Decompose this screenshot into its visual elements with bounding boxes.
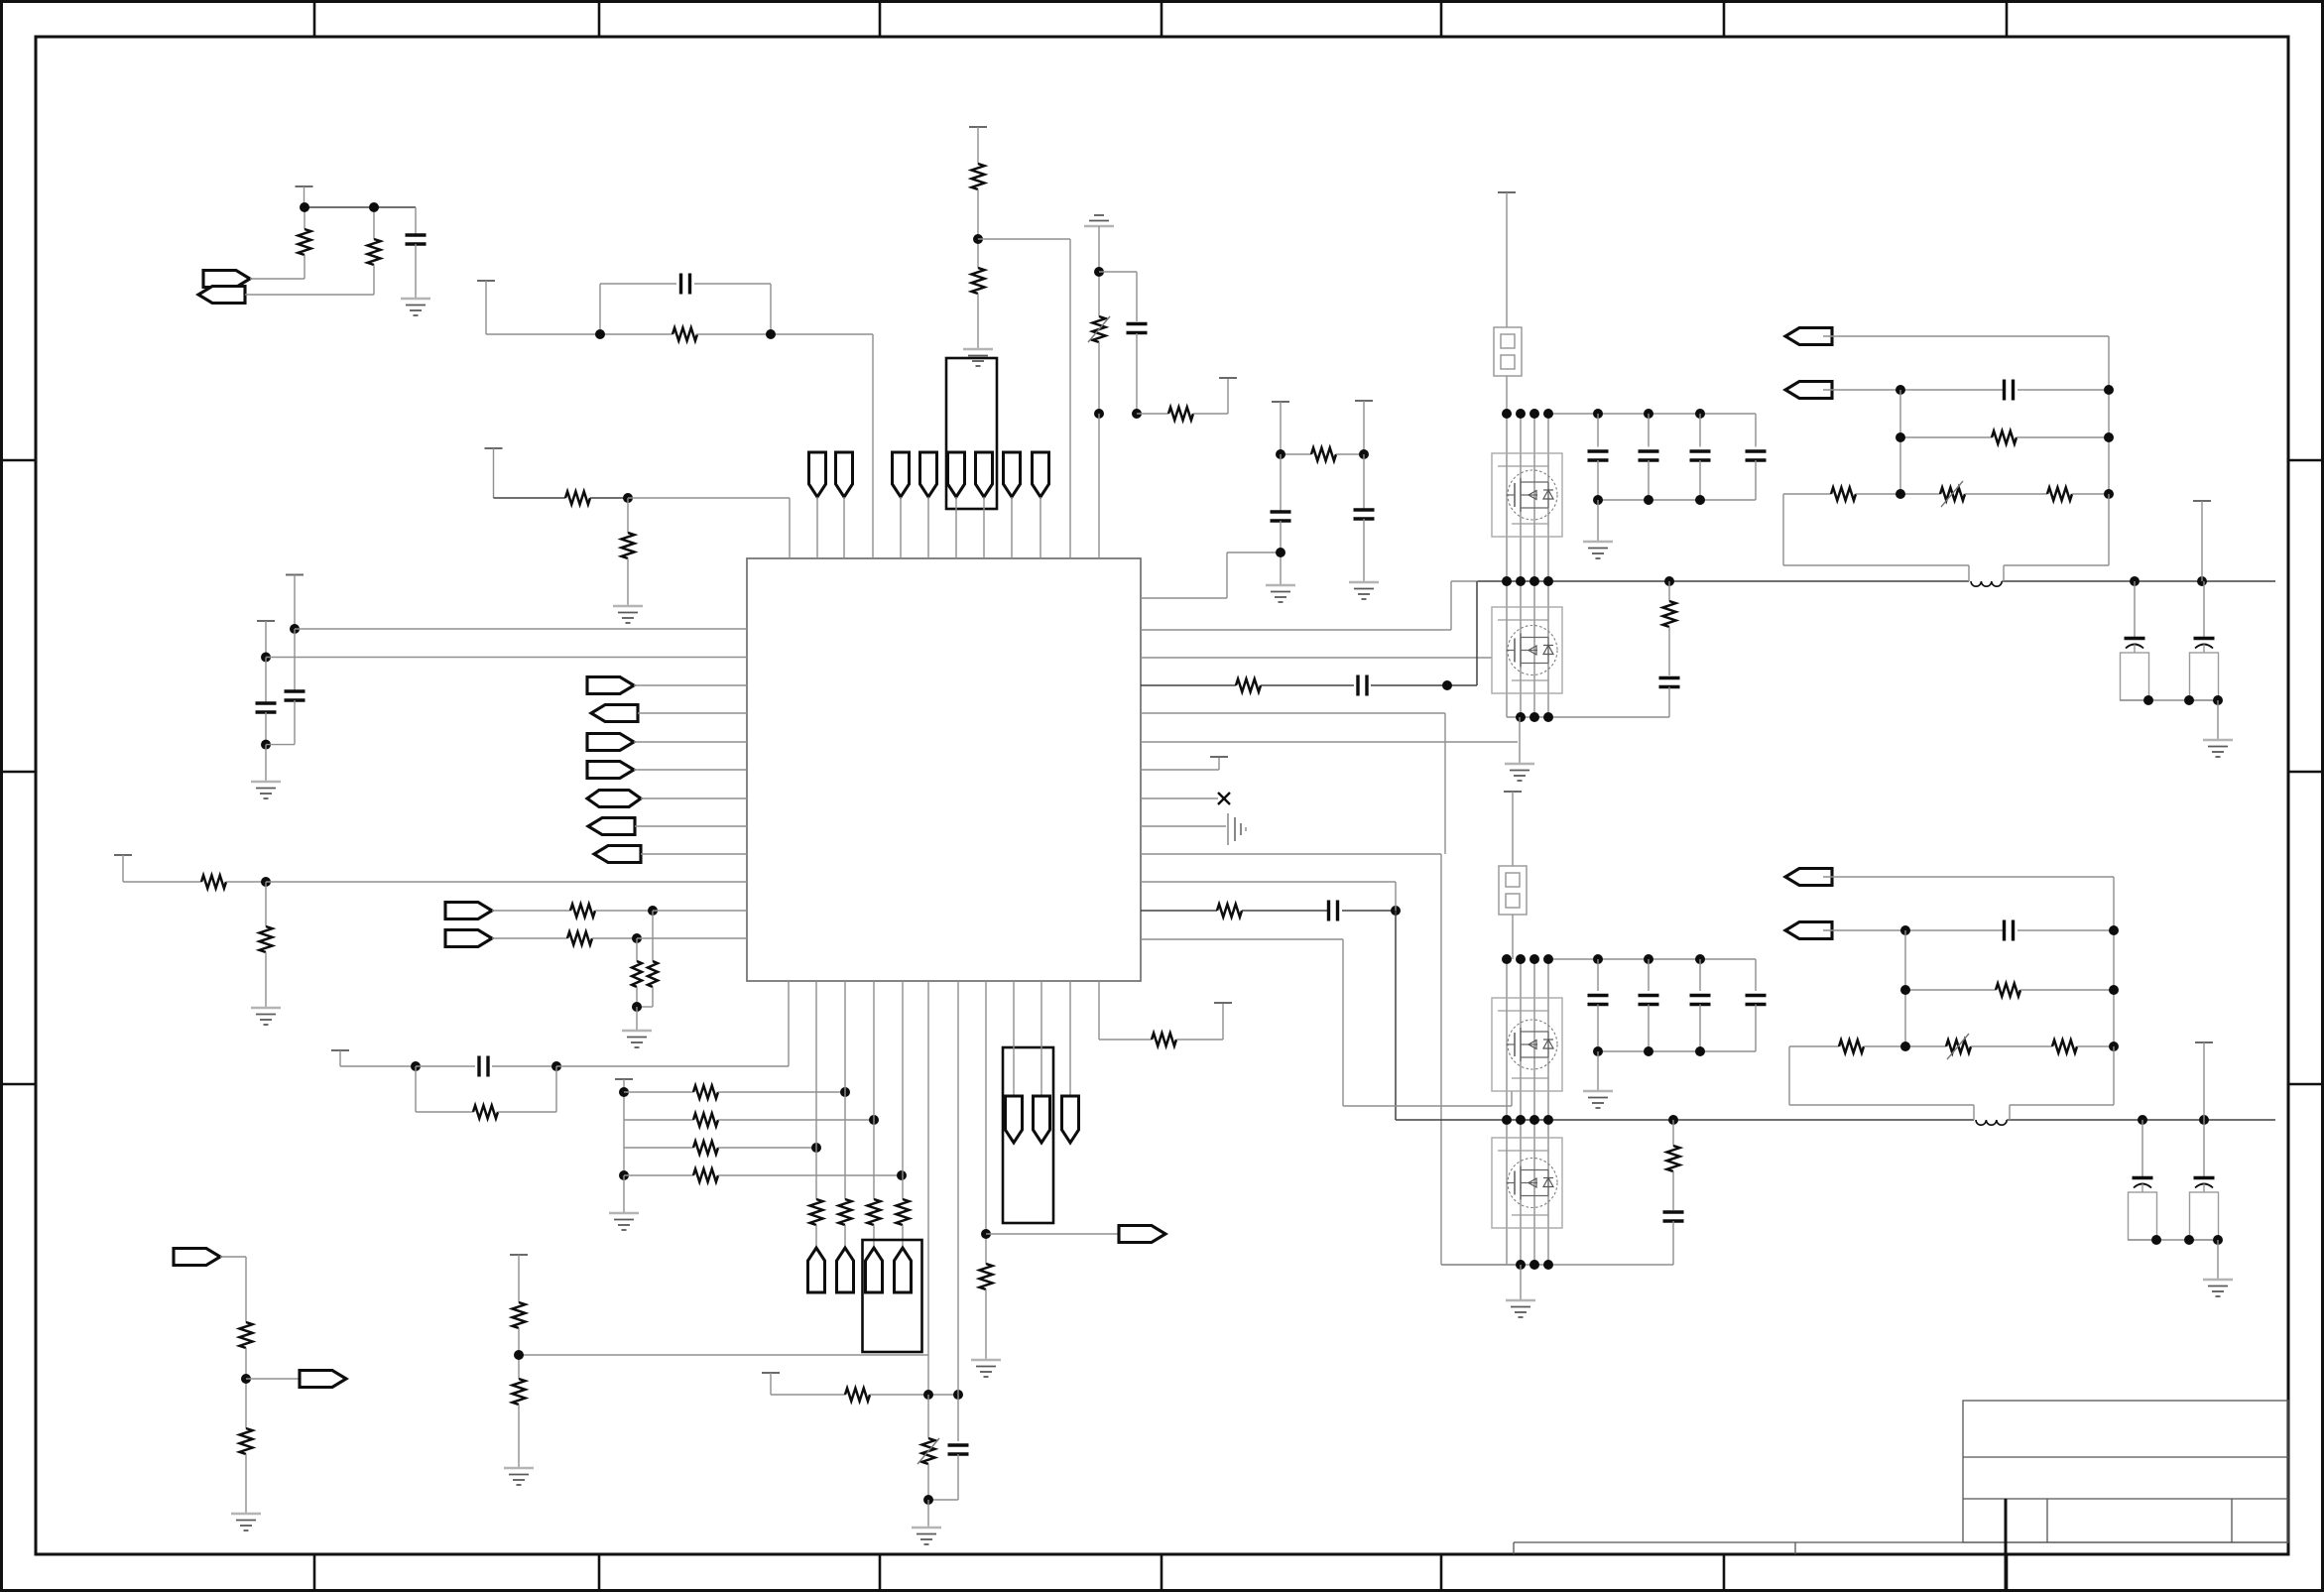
junction bbox=[1529, 1260, 1539, 1270]
wire bbox=[1789, 1045, 1839, 1047]
power stub bbox=[615, 1078, 633, 1080]
wire bbox=[1342, 910, 1396, 912]
junction bbox=[2184, 1235, 2194, 1245]
resistor R12 bbox=[201, 876, 226, 889]
ground bbox=[609, 1213, 639, 1230]
wire bbox=[1098, 414, 1100, 558]
capacitor C5 bbox=[479, 1056, 488, 1077]
wire bbox=[718, 1174, 902, 1176]
wire bbox=[627, 558, 629, 606]
frame zone tick right bbox=[2288, 771, 2324, 774]
power stub bbox=[1214, 1002, 1232, 1004]
wire bbox=[1099, 271, 1137, 273]
ground bbox=[401, 299, 430, 315]
power flag pentagon up bbox=[895, 1248, 912, 1292]
net flag bbox=[174, 1249, 220, 1266]
wire bbox=[624, 1091, 693, 1093]
junction bbox=[981, 1229, 991, 1239]
junction bbox=[411, 1061, 421, 1071]
wire bbox=[844, 981, 846, 1199]
ground bbox=[1583, 542, 1613, 558]
power stub bbox=[257, 620, 275, 622]
wire bbox=[1069, 981, 1071, 1096]
wire bbox=[1672, 1171, 1674, 1210]
resistor R26 bbox=[1152, 1034, 1176, 1046]
junction bbox=[1502, 954, 1512, 964]
wire bbox=[1141, 597, 1227, 599]
junction bbox=[811, 1143, 821, 1153]
junction bbox=[619, 1170, 629, 1180]
wire bbox=[492, 1065, 556, 1067]
wire bbox=[2203, 581, 2205, 638]
inductor L2 bbox=[1976, 1120, 2007, 1125]
junction bbox=[1543, 954, 1553, 964]
net flag bbox=[203, 271, 250, 288]
wire bbox=[1141, 910, 1217, 912]
junction bbox=[1900, 925, 1910, 935]
wire bbox=[1512, 792, 1514, 866]
wire bbox=[624, 1174, 693, 1176]
ground flipped bbox=[1084, 215, 1114, 226]
wire bbox=[246, 1378, 300, 1380]
wire bbox=[2113, 877, 2115, 1046]
title block divider h1 bbox=[1963, 1456, 2288, 1458]
wire bbox=[2203, 1042, 2205, 1120]
wire bbox=[1141, 741, 1518, 743]
wire bbox=[266, 744, 295, 746]
capacitor C1 bbox=[415, 207, 417, 235]
wire bbox=[492, 910, 570, 912]
wire bbox=[1507, 716, 1669, 718]
net flag bbox=[1785, 328, 1832, 345]
wire bbox=[1548, 413, 1756, 415]
wire bbox=[1141, 797, 1218, 799]
wire bbox=[595, 910, 653, 912]
wire bbox=[486, 333, 673, 335]
resistor R33 bbox=[1992, 431, 2017, 444]
junction bbox=[1695, 409, 1705, 419]
junction bbox=[1516, 712, 1526, 722]
wire bbox=[245, 1257, 247, 1322]
wire bbox=[844, 1225, 846, 1248]
power flag pentagon bbox=[1006, 1096, 1023, 1143]
wire bbox=[977, 189, 979, 268]
junction bbox=[1359, 449, 1369, 459]
wire bbox=[1597, 1051, 1599, 1091]
wire bbox=[634, 684, 747, 686]
power flag pentagon bbox=[1062, 1096, 1079, 1143]
wire bbox=[1511, 1091, 1513, 1106]
wire bbox=[983, 497, 985, 558]
junction bbox=[2109, 1041, 2119, 1051]
frame zone tick top bbox=[879, 0, 882, 37]
wire bbox=[416, 1111, 473, 1113]
junction bbox=[1695, 1046, 1705, 1056]
wire bbox=[815, 981, 817, 1199]
resistor R8 bbox=[570, 905, 595, 918]
wire bbox=[498, 1111, 556, 1113]
power flag pentagon bbox=[976, 452, 993, 497]
frame zone tick top bbox=[313, 0, 316, 37]
wire bbox=[1261, 684, 1354, 686]
wire bbox=[653, 910, 747, 912]
wire bbox=[1098, 226, 1100, 316]
power stub bbox=[1355, 400, 1373, 402]
capacitor C4 bbox=[265, 658, 267, 704]
capacitor C17 bbox=[2005, 920, 2014, 941]
wire bbox=[2108, 494, 2110, 565]
capacitor Cin6 bbox=[1648, 959, 1650, 991]
wire bbox=[1533, 959, 1535, 1120]
wire bbox=[226, 881, 266, 883]
wire bbox=[2128, 1239, 2218, 1241]
wire bbox=[1099, 1039, 1152, 1041]
wire bbox=[2018, 929, 2114, 931]
wire bbox=[2141, 1120, 2143, 1177]
wire bbox=[2077, 1045, 2114, 1047]
wire bbox=[556, 1065, 789, 1067]
wire bbox=[415, 1066, 417, 1112]
capacitor C15 electrolytic bbox=[2190, 639, 2219, 701]
wire bbox=[220, 1256, 246, 1258]
wire bbox=[843, 497, 845, 558]
wire bbox=[1547, 1120, 1549, 1265]
wire bbox=[1506, 192, 1508, 327]
ground rotated bbox=[1228, 813, 1246, 845]
wire bbox=[1098, 981, 1100, 1040]
resistor R7 bbox=[622, 533, 635, 558]
power flag pentagon bbox=[893, 452, 910, 497]
capacitor C2 bbox=[681, 274, 690, 295]
capacitor C8 bbox=[1363, 454, 1365, 510]
net flag bbox=[445, 930, 492, 947]
wire bbox=[1520, 1120, 1522, 1265]
wire bbox=[789, 498, 791, 558]
wire bbox=[623, 1175, 625, 1213]
net flag bbox=[1785, 922, 1832, 939]
net flag bbox=[198, 287, 245, 304]
power flag pentagon bbox=[809, 452, 826, 497]
wire bbox=[1548, 958, 1756, 960]
net flag bbox=[587, 734, 634, 751]
junction bbox=[2104, 432, 2114, 442]
connector J2 bbox=[1499, 866, 1527, 915]
wire bbox=[1040, 497, 1041, 558]
wire bbox=[927, 1500, 929, 1528]
wire bbox=[1899, 390, 1901, 494]
junction bbox=[1543, 1260, 1553, 1270]
wire bbox=[634, 741, 747, 743]
junction bbox=[369, 202, 379, 212]
power stub bbox=[485, 447, 503, 449]
resistor R14 bbox=[473, 1106, 498, 1119]
ground bbox=[231, 1514, 261, 1531]
frame zone tick top bbox=[1723, 0, 1726, 37]
frame zone tick top bbox=[598, 0, 601, 37]
junction bbox=[1644, 495, 1653, 505]
ground bbox=[963, 349, 993, 366]
ground bbox=[971, 1360, 1001, 1377]
resistor R31 bbox=[1217, 905, 1242, 918]
frame zone tick bottom bbox=[2006, 1554, 2009, 1592]
junction bbox=[1502, 1115, 1512, 1125]
ground bbox=[251, 782, 281, 798]
wire bbox=[295, 628, 747, 630]
title block outline bbox=[1963, 1401, 2288, 1542]
transistor Q3 bbox=[1492, 998, 1562, 1091]
resistor R24 bbox=[240, 1428, 253, 1454]
junction bbox=[1516, 409, 1526, 419]
wire bbox=[770, 1373, 772, 1395]
junction bbox=[1896, 489, 1905, 499]
junction bbox=[1529, 576, 1539, 586]
wire bbox=[1137, 413, 1168, 415]
power stub bbox=[477, 280, 495, 282]
resistor R23 bbox=[240, 1322, 253, 1348]
junction bbox=[1695, 954, 1705, 964]
capacitor Cin3 bbox=[1699, 414, 1701, 447]
junction bbox=[1502, 409, 1512, 419]
capacitor C19 electrolytic bbox=[2190, 1178, 2219, 1241]
wire bbox=[1973, 1105, 1975, 1120]
wire bbox=[1371, 684, 1477, 686]
ground bbox=[1505, 764, 1534, 781]
wire bbox=[600, 283, 676, 285]
wire bbox=[637, 1006, 653, 1008]
wire bbox=[2217, 1240, 2219, 1280]
wire bbox=[266, 657, 747, 659]
title block divider v1 bbox=[2005, 1499, 2007, 1542]
wire bbox=[1478, 580, 1969, 582]
junction bbox=[1276, 548, 1285, 557]
power flag pentagon bbox=[1034, 1096, 1050, 1143]
wire bbox=[2120, 699, 2218, 701]
junction bbox=[1593, 409, 1603, 419]
net flag bbox=[587, 791, 641, 807]
wire bbox=[624, 1119, 693, 1121]
junction bbox=[1896, 432, 1905, 442]
junction bbox=[1644, 1046, 1653, 1056]
wire bbox=[245, 294, 374, 296]
wire bbox=[900, 497, 902, 558]
resistor R18 bbox=[693, 1169, 718, 1182]
wire bbox=[305, 206, 416, 208]
wire bbox=[1533, 1120, 1535, 1265]
wire bbox=[637, 937, 747, 939]
junction bbox=[1644, 954, 1653, 964]
wire bbox=[1782, 494, 1784, 565]
wire bbox=[1506, 581, 1508, 717]
wire bbox=[492, 937, 567, 939]
wire bbox=[122, 855, 124, 882]
junction bbox=[1543, 712, 1553, 722]
wire bbox=[1900, 436, 1992, 438]
resistor R4 bbox=[972, 164, 985, 189]
wire bbox=[1783, 493, 1831, 495]
junction bbox=[1502, 576, 1512, 586]
junction bbox=[1900, 1041, 1910, 1051]
wire bbox=[1668, 687, 1670, 718]
wire bbox=[555, 1066, 557, 1112]
wire bbox=[985, 981, 987, 1264]
wire bbox=[599, 284, 601, 334]
wire bbox=[696, 333, 873, 335]
resistor R20 variable bbox=[927, 1395, 929, 1438]
wire bbox=[2002, 580, 2275, 582]
wire bbox=[902, 981, 904, 1199]
wire bbox=[1506, 414, 1508, 581]
wire bbox=[1227, 378, 1229, 414]
title block divider v3 bbox=[2231, 1499, 2233, 1542]
wire bbox=[1598, 499, 1756, 501]
wire bbox=[1547, 581, 1549, 717]
no-connect X bbox=[1218, 793, 1230, 804]
wire bbox=[638, 712, 747, 714]
resistor R27 bbox=[1311, 448, 1336, 461]
power stub bbox=[1504, 791, 1522, 793]
resistor R40 variable bbox=[1946, 1041, 1971, 1053]
wire bbox=[416, 1065, 475, 1067]
wire bbox=[1040, 981, 1042, 1096]
junction bbox=[1529, 1115, 1539, 1125]
wire bbox=[1597, 500, 1599, 542]
power stub bbox=[296, 185, 313, 187]
wire bbox=[2108, 336, 2110, 494]
power flag pentagon up bbox=[866, 1248, 883, 1292]
junction bbox=[648, 906, 658, 916]
junction bbox=[1664, 576, 1674, 586]
wire bbox=[1520, 1265, 1522, 1300]
wire bbox=[1823, 929, 2003, 931]
wire bbox=[1783, 564, 1969, 566]
junction bbox=[1668, 1115, 1678, 1125]
wire bbox=[245, 1454, 247, 1514]
resistor R17 bbox=[693, 1142, 718, 1155]
resistor R39 bbox=[1839, 1041, 1864, 1053]
wire bbox=[1520, 959, 1522, 1120]
resistor R11 bbox=[636, 938, 638, 961]
wire bbox=[1506, 1120, 1508, 1265]
power stub bbox=[2195, 1041, 2213, 1043]
wire bbox=[955, 497, 957, 558]
title block divider v2 bbox=[2046, 1499, 2048, 1542]
wire bbox=[590, 497, 628, 499]
connector J1 bbox=[1494, 327, 1522, 376]
wire bbox=[1141, 938, 1343, 940]
wire bbox=[494, 497, 566, 499]
ground bbox=[1266, 585, 1295, 602]
junction bbox=[2213, 695, 2223, 705]
power flag pentagon up bbox=[837, 1248, 854, 1292]
net flag bbox=[1785, 382, 1832, 399]
wire bbox=[977, 294, 979, 349]
junction bbox=[514, 1350, 524, 1360]
wire bbox=[1280, 402, 1282, 454]
junction bbox=[1543, 1115, 1553, 1125]
wire bbox=[927, 981, 929, 1395]
power stub bbox=[286, 574, 304, 576]
wire bbox=[1506, 376, 1508, 414]
wire bbox=[1141, 825, 1226, 827]
wire bbox=[927, 497, 929, 558]
wire bbox=[788, 981, 790, 1066]
capacitor C14 electrolytic bbox=[2121, 639, 2149, 701]
wire bbox=[1013, 981, 1015, 1096]
ground bbox=[613, 606, 643, 623]
resistor R21 bbox=[513, 1302, 526, 1328]
wire bbox=[770, 284, 772, 334]
wire bbox=[1136, 272, 1138, 321]
wire bbox=[1789, 1104, 1974, 1106]
junction bbox=[766, 329, 776, 339]
capacitor Cin2 bbox=[1648, 414, 1650, 447]
resistor R16 bbox=[693, 1114, 718, 1127]
frame zone tick top bbox=[2006, 0, 2009, 37]
junction bbox=[290, 624, 300, 634]
capacitor C10 bbox=[1358, 675, 1367, 696]
junction bbox=[1543, 409, 1553, 419]
junction bbox=[632, 933, 642, 943]
wire bbox=[1342, 939, 1344, 1106]
wire bbox=[1441, 1264, 1521, 1266]
wire bbox=[1672, 1120, 1674, 1146]
junction bbox=[1516, 1115, 1526, 1125]
junction bbox=[1516, 576, 1526, 586]
frame zone tick right bbox=[2288, 1083, 2324, 1086]
junction bbox=[1132, 409, 1142, 419]
wire bbox=[1823, 389, 2003, 391]
capacitor C12 bbox=[1659, 678, 1680, 687]
wire bbox=[1788, 1046, 1790, 1105]
junction bbox=[619, 1087, 629, 1097]
wire bbox=[1520, 414, 1522, 581]
net flag bbox=[587, 677, 634, 694]
power flag pentagon bbox=[920, 452, 937, 497]
wire bbox=[902, 1225, 904, 1248]
wire bbox=[265, 621, 267, 658]
wire bbox=[1971, 1045, 2052, 1047]
wire bbox=[636, 1007, 638, 1031]
junction bbox=[2104, 489, 2114, 499]
capacitor Cin1 bbox=[1597, 414, 1599, 447]
power stub bbox=[1210, 756, 1228, 758]
junction bbox=[300, 202, 309, 212]
wire bbox=[1512, 915, 1514, 959]
resistor pulldown bbox=[839, 1199, 852, 1225]
junction bbox=[973, 234, 983, 244]
power flag pentagon up bbox=[808, 1248, 825, 1292]
wire bbox=[1533, 581, 1535, 717]
power stub bbox=[331, 1049, 349, 1051]
junction bbox=[1516, 954, 1526, 964]
wire bbox=[1336, 453, 1364, 455]
wire bbox=[870, 1394, 958, 1396]
wire bbox=[815, 1225, 817, 1248]
wire bbox=[641, 797, 747, 799]
wire bbox=[1440, 854, 1442, 1265]
power stub bbox=[762, 1372, 780, 1374]
wire bbox=[1520, 581, 1522, 717]
rectangle module bbox=[1003, 1047, 1053, 1223]
wire bbox=[1904, 930, 1906, 1046]
resistor R41 bbox=[2052, 1041, 2077, 1053]
wire bbox=[592, 937, 637, 939]
resistor pulldown bbox=[897, 1199, 910, 1225]
wire bbox=[624, 1147, 693, 1149]
power stub bbox=[114, 854, 132, 856]
title block divider h2 bbox=[1963, 1498, 2288, 1500]
junction bbox=[1094, 409, 1104, 419]
